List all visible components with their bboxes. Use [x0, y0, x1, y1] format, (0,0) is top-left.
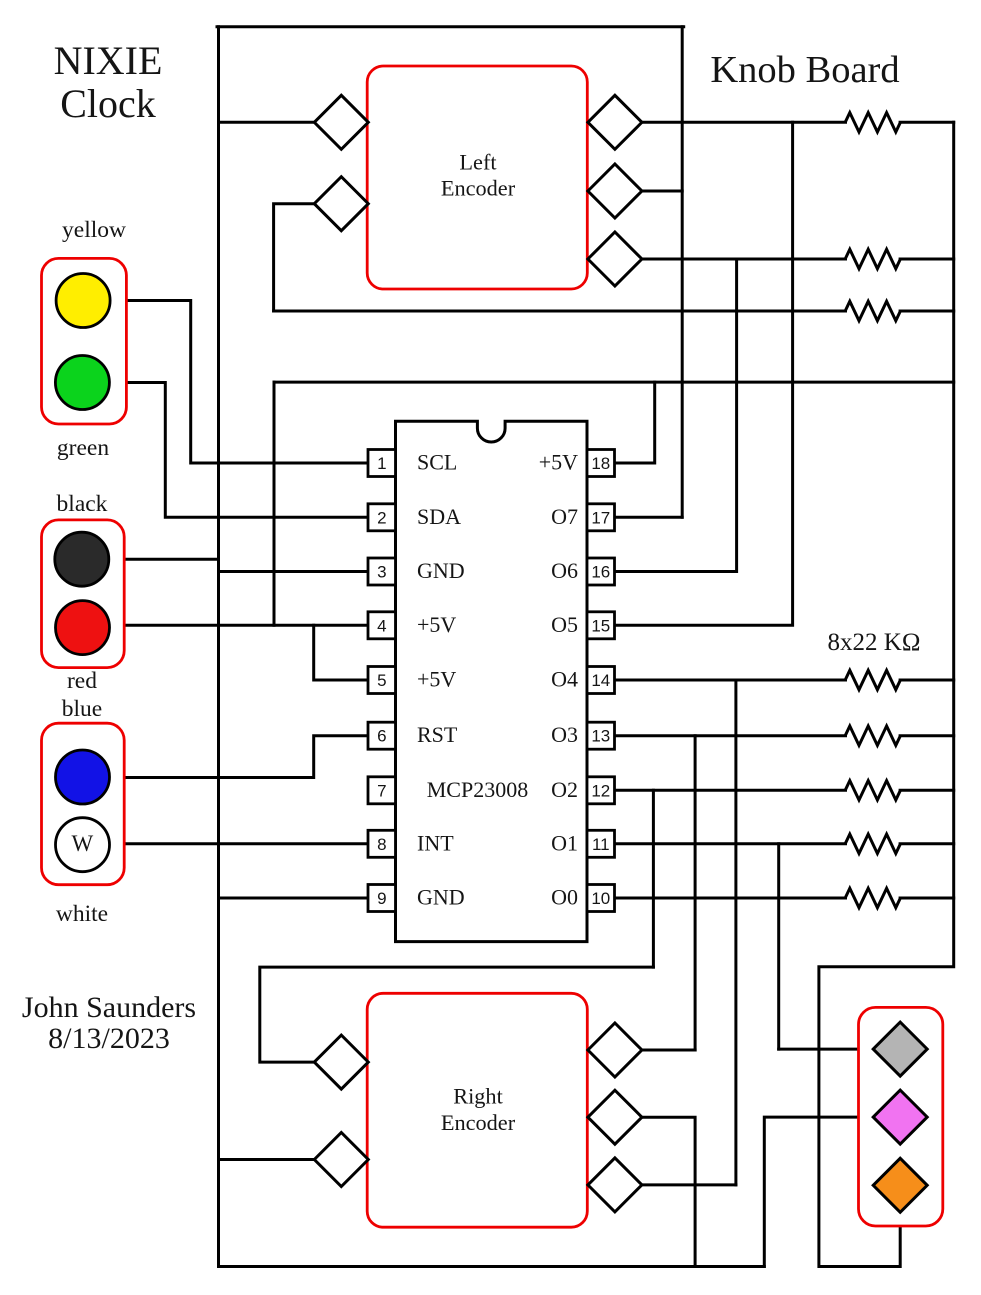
wire right encoder diamond E to O4 vertical: [642, 1183, 736, 1186]
wire resistor R8 to +5V bus: [900, 897, 954, 900]
wire O2 net vertical to right encoder diamond A path: [652, 790, 655, 967]
U1 pin 8 box: [368, 830, 396, 857]
wire resistor R7 to +5V bus: [900, 842, 954, 845]
svg-text:5: 5: [377, 671, 386, 690]
svg-text:17: 17: [591, 508, 610, 527]
U1 pin 5 box: [368, 667, 396, 694]
U1 pin 9 box: [368, 885, 396, 912]
svg-text:O4: O4: [551, 667, 578, 692]
svg-text:NIXIE: NIXIE: [54, 38, 163, 83]
U1 pin 16 box: [587, 558, 615, 585]
svg-text:O1: O1: [551, 830, 578, 855]
svg-text:+5V: +5V: [417, 667, 456, 692]
svg-text:12: 12: [591, 781, 610, 800]
connector yellow/green box: [42, 258, 127, 424]
wire left encoder diamond D to O7 edge: [642, 190, 682, 193]
svg-text:SDA: SDA: [417, 504, 461, 529]
IC U1 MCP23008 body: [396, 421, 588, 941]
wire row to resistor R3: [274, 310, 846, 313]
svg-text:red: red: [67, 668, 97, 694]
U1 pin 14 box: [587, 667, 615, 694]
resistor R6 22K: [845, 781, 900, 800]
encoder right encoder box: [367, 993, 587, 1227]
LED green: [55, 356, 109, 410]
U1 pin 6 box: [368, 722, 396, 749]
svg-text:15: 15: [591, 616, 610, 635]
wire O3 net vertical to right encoder diamond C: [694, 736, 697, 1050]
svg-text:7: 7: [377, 781, 386, 800]
wire resistor R1 to +5V bus: [900, 121, 954, 124]
wire U1 pin 14 O4 row to resistor R4: [615, 679, 846, 682]
left encoder pin diamond A (left top): [314, 95, 368, 149]
right encoder pin diamond D (right middle): [588, 1090, 642, 1144]
wire resistor R3 to +5V bus: [900, 310, 954, 313]
U1 pin 3 box: [368, 558, 396, 585]
wire GND edge to right encoder diamond B: [219, 1158, 315, 1161]
resistor R7 22K: [845, 834, 900, 853]
wire O7 net right edge (to U1 pin 17): [681, 27, 684, 518]
svg-text:14: 14: [591, 671, 610, 690]
wire U1 pin 15 O5 up to resistor R1 row: [615, 122, 793, 625]
svg-text:1: 1: [377, 454, 386, 473]
svg-text:Encoder: Encoder: [441, 1110, 516, 1135]
svg-text:O2: O2: [551, 777, 578, 802]
wire GND edge to left encoder diamond A: [219, 121, 315, 124]
wire red +5V to U1 pin 4: [109, 624, 368, 627]
left encoder pin diamond D (right middle): [588, 164, 642, 218]
resistor R3 22K: [845, 301, 900, 320]
svg-text:SCL: SCL: [417, 450, 457, 475]
U1 pin 1 box: [368, 450, 396, 477]
svg-text:black: black: [57, 491, 108, 517]
connector knob LED box (gray/violet/orange): [859, 1007, 943, 1226]
left encoder pin diamond B (left bottom): [314, 177, 368, 231]
U1 pin 10 box: [587, 885, 615, 912]
svg-text:+5V: +5V: [417, 612, 456, 637]
wire O2 net to right encoder diamond A: [260, 967, 654, 1062]
svg-text:blue: blue: [62, 696, 102, 722]
svg-text:2: 2: [377, 508, 386, 527]
svg-text:green: green: [57, 435, 109, 461]
resistor R2 22K: [845, 249, 900, 268]
wire resistor R4 to +5V bus: [900, 679, 954, 682]
wire resistor R5 to +5V bus: [900, 734, 954, 737]
svg-text:10: 10: [591, 889, 610, 908]
connector black/red box: [42, 520, 125, 668]
wire +5V bus right side: [819, 122, 954, 1266]
wire GND bus to U1 pin 3 GND: [219, 570, 369, 573]
wire green to U1 pin 2 SDA: [109, 383, 368, 518]
svg-text:O3: O3: [551, 722, 578, 747]
svg-text:4: 4: [377, 616, 386, 635]
svg-text:16: 16: [591, 563, 610, 582]
wire U1 pin 4 to pin 5 +5V link: [314, 625, 368, 680]
svg-text:3: 3: [377, 563, 386, 582]
terminal white: [56, 818, 110, 872]
terminal red: [56, 601, 110, 655]
wire right encoder diamond C to O3 vertical: [642, 1049, 695, 1052]
svg-text:8: 8: [377, 835, 386, 854]
svg-text:8x22 KΩ: 8x22 KΩ: [828, 629, 921, 656]
U1 pin 17 box: [587, 504, 615, 531]
svg-text:RST: RST: [417, 722, 458, 747]
wire U1 pin 10 O0 row to resistor R8: [615, 897, 846, 900]
svg-text:yellow: yellow: [62, 217, 126, 243]
wire U1 pin 18 +5V up to +5V row: [615, 382, 655, 463]
svg-text:11: 11: [592, 835, 610, 854]
svg-text:Right: Right: [453, 1084, 503, 1109]
svg-text:Encoder: Encoder: [441, 176, 516, 201]
wire O1 net vertical to gray diamond: [777, 844, 780, 1049]
U1 pin 18 box: [587, 450, 615, 477]
wire blue to U1 pin 6 RST: [109, 736, 368, 778]
svg-text:13: 13: [591, 727, 610, 746]
wire resistor R2 to +5V bus: [900, 258, 954, 261]
wire GND net bottom edge: [219, 1265, 765, 1268]
svg-text:O6: O6: [551, 558, 578, 583]
wire GND net left edge (GND bus): [217, 27, 220, 1267]
wire O1 vertical to gray diamond: [779, 1048, 874, 1051]
wire U1 pin 17 O7 to right edge: [615, 516, 683, 519]
wire GND net top edge: [217, 25, 684, 28]
svg-text:8/13/2023: 8/13/2023: [48, 1022, 170, 1055]
resistor R1 22K: [845, 113, 900, 132]
U1 pin 7 box: [368, 777, 396, 804]
resistor R8 22K: [845, 888, 900, 907]
svg-text:John Saunders: John Saunders: [22, 991, 196, 1024]
wire left encoder diamond C to resistor R1: [642, 121, 846, 124]
wire resistor R6 to +5V bus: [900, 789, 954, 792]
svg-text:Knob Board: Knob Board: [710, 49, 899, 91]
right encoder pin diamond A (left top): [314, 1035, 368, 1089]
LED yellow: [56, 274, 110, 328]
pin diamond violet: [873, 1090, 927, 1144]
wire left encoder diamond E to resistor R2: [642, 258, 846, 261]
left encoder pin diamond C (right top): [588, 95, 642, 149]
wire +5V row to bus: [274, 381, 954, 384]
U1 pin 2 box: [368, 504, 396, 531]
svg-text:O0: O0: [551, 885, 578, 910]
U1 pin 13 box: [587, 722, 615, 749]
U1 pin 12 box: [587, 777, 615, 804]
svg-text:GND: GND: [417, 885, 465, 910]
svg-text:MCP23008: MCP23008: [427, 777, 528, 802]
wire O4 net vertical to right encoder diamond E: [734, 680, 737, 1185]
svg-text:O7: O7: [551, 504, 578, 529]
terminal blue: [56, 750, 110, 804]
U1 pin 4 box: [368, 612, 396, 639]
svg-text:INT: INT: [417, 830, 454, 855]
U1 pin 11 box: [587, 830, 615, 857]
U1 pin 15 box: [587, 612, 615, 639]
wire U1 pin 13 O3 row to resistor R5: [615, 734, 846, 737]
encoder left encoder box: [367, 66, 587, 289]
svg-text:white: white: [56, 901, 108, 927]
wire white to U1 pin 8 INT: [109, 842, 368, 845]
left encoder pin diamond E (right bottom): [588, 232, 642, 286]
wire left encoder diamond B jog down: [274, 204, 315, 311]
svg-text:9: 9: [377, 889, 386, 908]
wire U1 pin 12 O2 row to resistor R6: [615, 789, 846, 792]
svg-text:Clock: Clock: [60, 81, 156, 126]
svg-text:18: 18: [591, 454, 610, 473]
svg-text:6: 6: [377, 727, 386, 746]
connector blue/white box: [42, 723, 125, 885]
wire U1 pin 11 O1 row to resistor R7: [615, 842, 846, 845]
svg-text:O5: O5: [551, 612, 578, 637]
wire right encoder diamond D down to GND bottom edge: [642, 1117, 695, 1266]
svg-text:Left: Left: [459, 150, 497, 175]
resistor R5 22K: [845, 726, 900, 745]
right encoder pin diamond C (right top): [588, 1023, 642, 1077]
wire violet diamond to GND bottom edge: [764, 1117, 873, 1266]
svg-text:W: W: [71, 831, 93, 856]
wire U1 pin 16 O6 up to left encoder diamond E row: [615, 259, 737, 572]
pin diamond orange: [873, 1158, 927, 1212]
terminal black: [55, 532, 109, 586]
resistor R4 22K: [845, 670, 900, 689]
svg-text:+5V: +5V: [539, 450, 578, 475]
wire yellow to U1 pin 1 SCL: [110, 301, 368, 464]
wire black to GND bus: [108, 558, 219, 561]
pin diamond gray: [873, 1022, 927, 1076]
wire GND bus to U1 pin 9 GND: [219, 897, 369, 900]
wire +5V drop to U1 pin 4 row: [273, 382, 276, 625]
right encoder pin diamond E (right bottom): [588, 1158, 642, 1212]
right encoder pin diamond B (left bottom): [314, 1133, 368, 1187]
svg-text:GND: GND: [417, 558, 465, 583]
